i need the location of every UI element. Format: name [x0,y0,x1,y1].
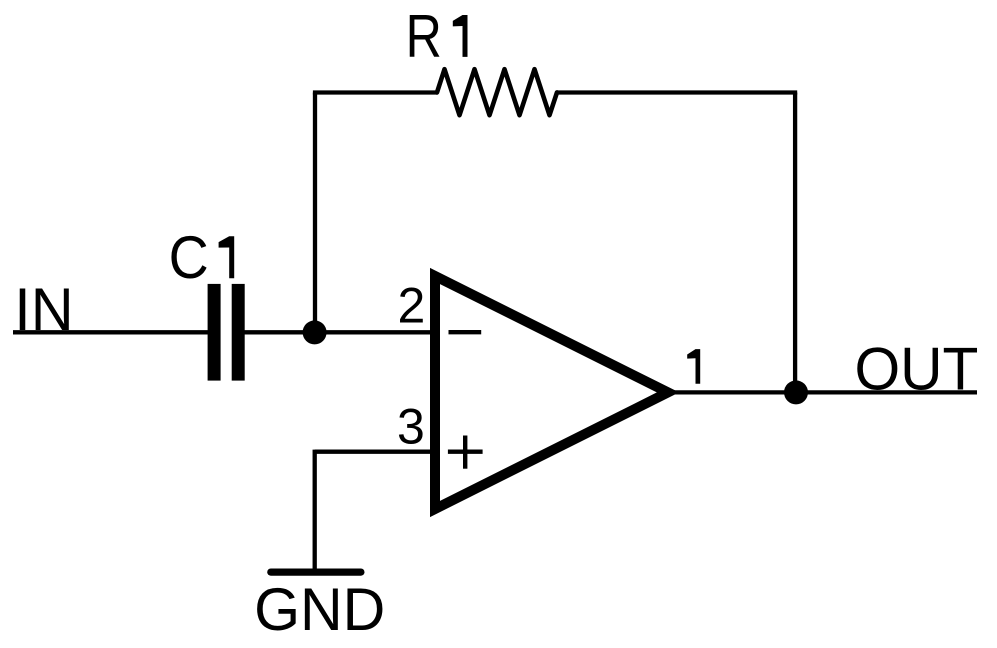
op-amp plus sign (non-inverting input) [448,436,483,469]
wire feedback top left horizontal [313,90,437,94]
svg-text:2: 2 [398,278,426,334]
svg-text:3: 3 [397,399,425,455]
wire capacitor to op-amp inverting input [245,330,438,334]
label R1 digit [453,15,468,57]
junction node at output / feedback [784,380,808,404]
wire non-inverting input horizontal [315,450,437,454]
svg-text:C: C [169,224,209,291]
wire feedback vertical right [793,93,797,393]
wire op-amp output [668,390,977,394]
wire IN stub [13,330,209,334]
svg-text:R: R [406,3,442,70]
svg-text:GND: GND [254,576,385,643]
op-amp U1 triangle [435,276,668,509]
wire feedback vertical left [313,93,317,333]
svg-text:IN: IN [14,276,73,343]
svg-text:OUT: OUT [855,336,979,403]
pin number 1 [687,349,700,384]
junction node at C1 / feedback [303,320,327,344]
label C1 digit [219,236,235,278]
capacitor C1 [208,284,245,381]
resistor R1 [437,69,557,115]
wire feedback top right horizontal [557,90,797,94]
ground symbol bar [271,568,361,575]
wire to ground vertical [313,450,317,572]
op-amp minus sign (inverting input) [449,330,482,334]
